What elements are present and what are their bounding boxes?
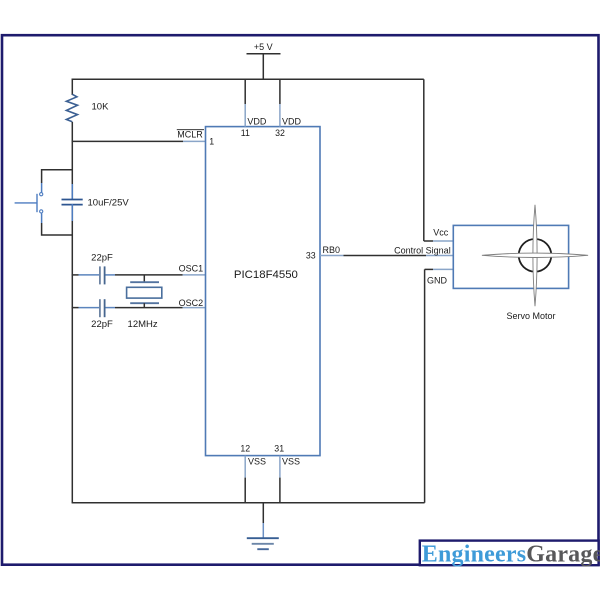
svg-text:VSS: VSS [282,456,300,466]
crystal X1 12MHz [127,275,162,330]
pin 12 VSS [240,444,266,503]
wire MCLR [72,140,206,142]
wire left rail upper [71,79,73,96]
push button S1 [15,193,43,213]
svg-text:12MHz: 12MHz [128,319,158,330]
IC U1 PIC18F4550 [206,127,321,456]
svg-text:22pF: 22pF [91,319,113,330]
svg-text:VDD: VDD [282,116,302,126]
svg-text:Servo Motor: Servo Motor [506,311,555,321]
pin 1 MCLR [177,130,214,147]
wire OSC2 [72,307,206,309]
svg-text:11: 11 [241,128,250,138]
resistor R1 10K [66,94,109,122]
svg-text:10uF/25V: 10uF/25V [88,197,130,208]
svg-text:22pF: 22pF [91,253,113,264]
wire bottom rail [72,502,425,504]
svg-text:OSC1: OSC1 [179,263,204,273]
svg-text:31: 31 [274,444,284,454]
svg-text:+5 V: +5 V [254,42,273,52]
servo motor M1 [453,205,588,321]
pin 33 RB0 [306,245,340,261]
svg-text:RB0: RB0 [323,245,341,255]
svg-text:1: 1 [209,137,214,147]
wire button branch [42,170,73,235]
svg-text:PIC18F4550: PIC18F4550 [234,269,298,281]
pin 11 VDD [241,79,267,138]
EngineersGarage logo [420,541,600,568]
svg-text:32: 32 [275,128,285,138]
pin 32 VDD [275,79,301,138]
svg-text:MCLR: MCLR [177,130,203,140]
svg-text:Vcc: Vcc [433,227,449,237]
wire servo GND [425,269,454,502]
svg-text:10K: 10K [92,101,110,112]
svg-text:GND: GND [427,276,448,286]
svg-text:Control Signal: Control Signal [394,245,451,255]
svg-text:12: 12 [240,444,250,454]
capacitor C1 10uF/25V [62,184,130,221]
ground [247,503,279,549]
svg-text:33: 33 [306,251,316,261]
wire RB0 control signal [320,245,453,255]
power +5V [247,42,281,79]
pin 31 VSS [274,444,300,503]
svg-text:OSC2: OSC2 [179,298,204,308]
wire Vcc feed [424,79,454,241]
capacitor C2 22pF top [91,253,113,285]
wire left rail mid [71,122,73,199]
svg-text:EngineersGarage: EngineersGarage [422,541,600,567]
capacitor C3 22pF bottom [91,299,113,330]
wire top rail [72,78,424,80]
svg-text:VSS: VSS [248,456,266,466]
wire OSC1 [72,274,206,276]
svg-text:VDD: VDD [247,116,267,126]
